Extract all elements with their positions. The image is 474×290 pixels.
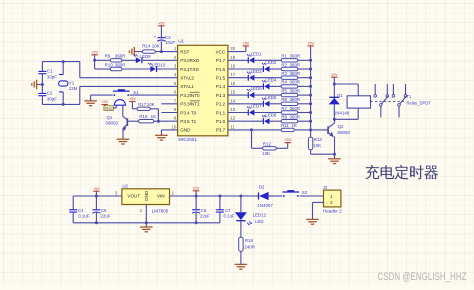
node base/pull-up junction: [157, 120, 160, 123]
wire LED9 to pin 2: [142, 59, 162, 61]
U1 pin stubs and pin numbers: [161, 46, 244, 133]
svg-text:+5V: +5V: [284, 138, 291, 142]
svg-text:360R: 360R: [290, 97, 301, 102]
wire R2 to +5V bus: [298, 68, 311, 70]
svg-text:Q2: Q2: [338, 124, 344, 129]
svg-text:360R: 360R: [290, 115, 301, 120]
wire buzzer to Q1 collector: [122, 105, 124, 116]
svg-text:360R: 360R: [290, 88, 301, 93]
svg-text:0.1uF: 0.1uF: [224, 214, 236, 219]
svg-text:GND: GND: [180, 128, 191, 133]
svg-text:16: 16: [230, 81, 235, 86]
svg-text:10K: 10K: [313, 143, 321, 148]
svg-text:XTAL2: XTAL2: [180, 76, 194, 81]
svg-text:15: 15: [230, 90, 235, 95]
resistor R16 240R: [239, 221, 255, 265]
svg-text:XTAL1: XTAL1: [180, 84, 194, 89]
svg-text:R8: R8: [281, 115, 287, 120]
svg-text:10K: 10K: [152, 44, 160, 49]
wire VIN rail to D2: [170, 195, 259, 197]
svg-text:12V: 12V: [331, 73, 338, 77]
svg-text:R1: R1: [281, 54, 287, 59]
node C5 bottom: [95, 221, 98, 224]
ground (U2): [140, 223, 153, 232]
wire R7 to +5V bus: [298, 112, 311, 114]
node C5 top: [95, 195, 98, 198]
wire P1.4 row: [244, 85, 263, 87]
wire P1.7 row: [244, 59, 248, 61]
node bus row 1: [309, 59, 312, 62]
switch S1 push button: [113, 89, 139, 96]
svg-text:P1.2: P1.2: [216, 102, 226, 107]
switch S2 push button: [283, 190, 308, 197]
svg-text:22uF: 22uF: [200, 214, 210, 219]
wire bottom rail: [73, 222, 220, 224]
svg-text:240R: 240R: [244, 245, 255, 250]
node C7 top: [218, 195, 221, 198]
svg-text:P1.7: P1.7: [216, 58, 226, 63]
node bus row 2: [309, 68, 312, 71]
diode LED6: [262, 95, 277, 107]
wire LED10 to pin 3: [157, 68, 162, 70]
node crystal bottom junction: [62, 103, 65, 106]
svg-text:Y1: Y1: [69, 81, 75, 86]
svg-text:GND: GND: [144, 190, 149, 201]
wire XTAL2 net: [80, 77, 162, 79]
IC U1 89C2051 body: [178, 45, 228, 136]
svg-text:VCC: VCC: [216, 49, 226, 54]
wire LED2 to R2: [270, 68, 282, 70]
svg-text:LED6: LED6: [265, 95, 277, 100]
svg-text:LED12: LED12: [253, 213, 267, 218]
svg-text:C1: C1: [47, 69, 53, 74]
svg-text:P1.3: P1.3: [216, 93, 226, 98]
diode LED9: [134, 54, 152, 63]
wire P1.3 row: [244, 94, 248, 96]
wire GND pin 10: [160, 130, 162, 135]
node bus row 6: [309, 102, 312, 105]
svg-text:LED10: LED10: [152, 63, 166, 68]
wire P3.2 net to S1: [130, 94, 162, 96]
wire XTAL1 net: [80, 85, 162, 87]
wire R5 to +5V bus: [298, 94, 311, 96]
svg-text:T1: T1: [407, 94, 413, 99]
wire VCC pin 20: [244, 51, 246, 53]
svg-text:P3.5 T1: P3.5 T1: [180, 119, 196, 124]
wire +5V LED bus: [310, 46, 312, 130]
svg-text:20: 20: [230, 46, 235, 51]
svg-text:Header 2: Header 2: [323, 209, 342, 214]
wire P1.2 row: [244, 103, 263, 105]
svg-text:C6: C6: [201, 208, 207, 213]
diode LED5: [247, 86, 262, 98]
svg-text:LED9: LED9: [140, 54, 152, 59]
relay T1 contact linkage (dashed): [371, 100, 405, 102]
wire LED5 to R5: [254, 94, 281, 96]
crystal Y1 12M: [59, 62, 78, 105]
resistor R4 360R: [281, 80, 300, 88]
diode LED3: [247, 69, 262, 81]
node C6 top: [195, 195, 198, 198]
wire LED3 to R3: [254, 77, 281, 79]
svg-text:360R: 360R: [290, 80, 301, 85]
wire R6 to +5V bus: [298, 103, 311, 105]
diode LED12: [235, 196, 267, 225]
svg-text:LED2: LED2: [265, 60, 277, 65]
svg-text:R10: R10: [105, 62, 114, 67]
node C6 bottom: [195, 221, 198, 224]
svg-text:S2: S2: [302, 190, 308, 195]
svg-text:R15: R15: [139, 114, 148, 119]
resistor R6 360R: [281, 97, 300, 105]
regulator U2 LM7805: [115, 183, 175, 213]
wire Q1 emitter to ground: [122, 128, 124, 139]
node bus row 5: [309, 94, 312, 97]
svg-text:12: 12: [230, 116, 235, 121]
svg-text:R17: R17: [138, 102, 147, 107]
svg-text:R12: R12: [263, 142, 272, 147]
svg-text:P3.2INT0: P3.2INT0: [180, 93, 200, 98]
svg-text:U2: U2: [122, 183, 128, 188]
svg-text:D1: D1: [337, 93, 343, 98]
capacitor C5 22uF: [92, 196, 110, 223]
svg-text:360R: 360R: [290, 106, 301, 111]
power +5V port (RST pull-up): [158, 21, 165, 37]
svg-text:S8050: S8050: [105, 121, 118, 126]
svg-text:+5V: +5V: [129, 97, 136, 101]
svg-text:360R: 360R: [290, 71, 301, 76]
svg-text:10K: 10K: [147, 102, 155, 107]
svg-text:R6: R6: [281, 97, 287, 102]
svg-text:0.1uF: 0.1uF: [78, 214, 90, 219]
svg-text:360R: 360R: [290, 54, 301, 59]
svg-text:C4: C4: [78, 208, 84, 213]
power 12V port (VIN rail): [193, 186, 200, 196]
buzzer Beep designator box: [104, 106, 113, 111]
resistor R11 1K: [281, 123, 297, 131]
relay T1 coil: [347, 96, 370, 108]
svg-text:1K: 1K: [292, 123, 297, 128]
svg-text:+5V: +5V: [158, 21, 165, 25]
wire VOUT rail: [73, 195, 122, 197]
ground (crystal, sideways earth): [32, 80, 37, 89]
wire S2 to header: [300, 195, 324, 197]
svg-text:17: 17: [230, 72, 235, 77]
svg-text:R11: R11: [281, 123, 289, 128]
svg-text:R5: R5: [281, 88, 287, 93]
svg-text:14: 14: [230, 98, 235, 103]
svg-text:360R: 360R: [115, 62, 126, 67]
svg-text:P3.3INT1: P3.3INT1: [180, 102, 200, 107]
title text 充电定时器: [365, 165, 438, 180]
wire LED6 to R6: [270, 103, 282, 105]
transistor Q2 S8050: [328, 119, 350, 154]
wire D2 to S2: [269, 195, 282, 197]
svg-text:LED1: LED1: [251, 51, 263, 56]
svg-text:LM7805: LM7805: [152, 209, 169, 214]
wire 12V to relay coil top: [334, 83, 358, 85]
svg-text:+5V: +5V: [307, 42, 314, 46]
svg-text:P1.6: P1.6: [216, 67, 226, 72]
wire P3.7 net: [244, 129, 281, 131]
power +5V port (buzzer): [101, 100, 108, 106]
svg-text:LED8: LED8: [265, 112, 277, 117]
diode LED8: [262, 112, 277, 124]
resistor R15 1K (base): [127, 114, 158, 123]
svg-text:U1: U1: [178, 39, 184, 44]
svg-text:89C2051: 89C2051: [178, 137, 197, 142]
svg-text:Q1: Q1: [107, 115, 113, 120]
power +5V port (LED bus): [307, 42, 314, 46]
connector J2 Header 2: [323, 185, 342, 214]
node R12 tap: [250, 128, 253, 131]
svg-text:R7: R7: [281, 106, 287, 111]
node P3.0 branch junction: [93, 59, 96, 62]
svg-text:P1.0: P1.0: [216, 119, 226, 124]
wire P1.6 row: [244, 68, 263, 70]
svg-text:19: 19: [230, 55, 235, 60]
capacitor C6 22uF: [192, 196, 210, 223]
capacitor C1 30pF: [38, 62, 57, 85]
svg-text:22uF: 22uF: [100, 214, 110, 219]
svg-text:30pF: 30pF: [47, 96, 57, 101]
resistor R2 360R: [281, 62, 300, 70]
ground (S1): [84, 101, 97, 106]
svg-text:VOUT: VOUT: [127, 194, 140, 199]
wire R1 to +5V bus: [298, 59, 311, 61]
wire LED8 to R8: [270, 120, 282, 122]
wire P1.5 row: [244, 77, 248, 79]
svg-text:10K: 10K: [262, 151, 270, 156]
svg-text:+5V: +5V: [93, 187, 100, 191]
relay T1 contact pole 1: [374, 84, 389, 117]
node bus row 4: [309, 85, 312, 88]
wire P3.0 net: [95, 59, 111, 61]
wire to crystal ground: [37, 84, 43, 86]
resistor R1 360R: [281, 54, 300, 62]
diode LED10: [148, 63, 166, 73]
svg-text:+5V: +5V: [91, 50, 98, 54]
svg-text:12V: 12V: [193, 186, 200, 190]
relay T1 contact pole 2: [392, 84, 407, 117]
node emitter/R13 junction: [333, 153, 336, 156]
svg-text:10: 10: [172, 124, 177, 129]
svg-text:P1.1: P1.1: [216, 110, 226, 115]
svg-text:R14: R14: [142, 44, 151, 49]
ground (U1 pin 10): [155, 135, 168, 140]
buzzer dome: [113, 100, 125, 108]
wire R11 to Q2 base: [294, 129, 328, 131]
wire header pin 2 to ground: [313, 201, 324, 203]
svg-text:R3: R3: [281, 71, 287, 76]
resistor R7 360R: [281, 106, 300, 114]
ground (LED12/R16): [235, 264, 248, 269]
svg-text:360R: 360R: [115, 54, 126, 59]
wire R9 to LED9: [122, 59, 136, 61]
node LED12 tap: [239, 195, 242, 198]
diode D1 1N4148: [329, 84, 350, 119]
power +5V port (R17): [129, 97, 136, 109]
capacitor C2 30pF: [38, 85, 57, 105]
resistor R13 10K: [308, 130, 334, 154]
node U2 GND junction: [145, 221, 148, 224]
svg-text:1N4148: 1N4148: [334, 110, 350, 115]
power 12V port (relay): [331, 73, 338, 84]
svg-text:Beep: Beep: [105, 106, 113, 110]
svg-text:LED: LED: [255, 219, 264, 224]
svg-text:P3.4 T0: P3.4 T0: [180, 110, 196, 115]
svg-text:+5V: +5V: [242, 42, 249, 46]
node bus bottom junction: [309, 128, 312, 131]
diode LED7: [247, 104, 262, 116]
svg-text:Relay_DPDT: Relay_DPDT: [407, 101, 432, 106]
svg-text:CSDN @ENGLISH_HHZ: CSDN @ENGLISH_HHZ: [378, 271, 467, 283]
node bus row 7: [309, 111, 312, 114]
svg-text:P1.4: P1.4: [216, 84, 226, 89]
capacitor C7 0.1uF: [216, 196, 235, 223]
wire +5V to R10: [94, 60, 96, 69]
svg-text:LED3: LED3: [251, 69, 263, 74]
svg-text:R2: R2: [281, 62, 287, 67]
svg-text:R13: R13: [314, 137, 323, 142]
resistor R9 360R: [105, 54, 126, 62]
svg-text:VIN: VIN: [157, 194, 165, 199]
svg-text:RST: RST: [180, 49, 189, 54]
wire P1.1 row: [244, 112, 248, 114]
svg-text:LED5: LED5: [251, 86, 263, 91]
svg-text:360R: 360R: [290, 62, 301, 67]
svg-text:C2: C2: [47, 91, 53, 96]
resistor R17 10K pull-up: [132, 102, 158, 121]
resistor R12 10K: [252, 130, 288, 156]
node RST junction: [160, 50, 163, 53]
power +5V port (VCC): [242, 42, 249, 46]
power +5V port (rail): [93, 187, 100, 196]
wire LED4 to R4: [270, 85, 282, 87]
node collector junction: [333, 118, 336, 121]
resistor R3 360R: [281, 71, 300, 79]
svg-text:P3.0RXD: P3.0RXD: [180, 58, 200, 63]
svg-text:18: 18: [230, 64, 235, 69]
svg-text:C7: C7: [225, 208, 231, 213]
wire relay coil bottom to collector: [357, 108, 359, 119]
diode D2 1N4007: [257, 185, 273, 209]
svg-text:P1.5: P1.5: [216, 76, 226, 81]
wire R10 to LED10: [122, 68, 151, 70]
svg-text:11: 11: [230, 124, 235, 129]
wire U2 GND pin: [145, 205, 147, 223]
svg-text:LED7: LED7: [251, 104, 263, 109]
svg-text:12M: 12M: [69, 86, 78, 91]
wire LED1 to R1: [254, 59, 281, 61]
ground (Q1 emitter): [117, 139, 130, 144]
svg-text:J2: J2: [323, 185, 328, 190]
resistor R14 10K: [135, 44, 162, 54]
capacitor C4 0.1uF: [69, 196, 90, 223]
node crystal top junction: [62, 60, 65, 63]
node bus row 8: [309, 120, 312, 123]
svg-text:S8050: S8050: [337, 130, 350, 135]
diode LED2: [262, 60, 277, 72]
svg-text:1K: 1K: [151, 114, 156, 119]
wire LED7 to R7: [254, 112, 281, 114]
svg-text:LED4: LED4: [265, 78, 277, 83]
wire R4 to +5V bus: [298, 85, 311, 87]
svg-text:+5V: +5V: [101, 100, 108, 104]
svg-text:1N4007: 1N4007: [257, 203, 273, 208]
svg-text:P3.7: P3.7: [216, 128, 226, 133]
svg-text:R16: R16: [245, 238, 254, 243]
ground (header pin 2): [306, 219, 319, 224]
transistor Q1 S8050: [105, 115, 127, 131]
resistor R10 360R: [105, 62, 126, 70]
wire Q2 emitter to ground: [334, 154, 336, 159]
diode LED1: [247, 51, 262, 63]
resistor R8 360R: [281, 115, 300, 123]
node 12V junction: [333, 83, 336, 86]
node C1-C2 midpoint: [41, 83, 44, 86]
svg-text:R4: R4: [281, 80, 287, 85]
power +5V port (R9/R10): [91, 50, 98, 60]
wire R3 to +5V bus: [298, 77, 311, 79]
svg-text:13: 13: [230, 107, 235, 112]
svg-text:S1: S1: [133, 90, 139, 95]
svg-text:P3.1TXD: P3.1TXD: [180, 67, 199, 72]
relay T1 labels: [407, 94, 432, 106]
svg-text:R9: R9: [105, 54, 111, 59]
resistor R5 360R: [281, 88, 300, 96]
svg-text:30pF: 30pF: [47, 74, 57, 79]
wire P1.0 row: [244, 120, 263, 122]
svg-text:C5: C5: [101, 208, 107, 213]
wire R8 to +5V bus: [298, 120, 311, 122]
power +5V port (R12): [284, 138, 291, 142]
ground (RST, sideways earth): [130, 47, 135, 56]
svg-text:D2: D2: [259, 185, 265, 190]
capacitor C3 10uF: [154, 35, 176, 51]
ground (Q2 emitter): [328, 159, 341, 164]
diode LED4: [262, 78, 277, 90]
svg-text:10uF: 10uF: [165, 40, 175, 45]
node bus row 3: [309, 76, 312, 79]
